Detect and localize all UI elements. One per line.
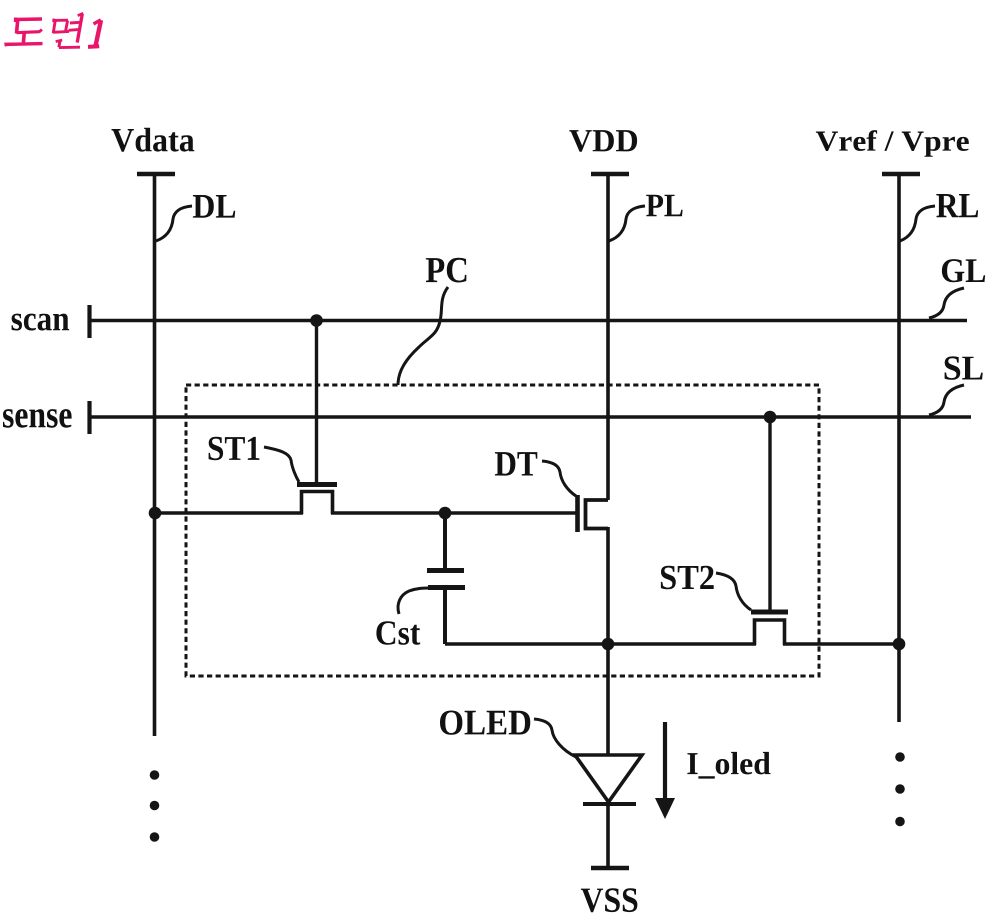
SL leader line — [929, 385, 964, 415]
capacitor Cst top lead — [443, 513, 447, 568]
I_oled current arrow — [663, 722, 667, 801]
transistor ST2 gate bar — [751, 610, 788, 615]
wire — [331, 511, 576, 515]
capacitor Cst bottom lead — [443, 590, 447, 644]
continuation dots left (DL column) — [150, 770, 160, 842]
source wire from Cst to RL (horizontal, y=644) — [445, 642, 756, 646]
continuation dots right (RL column) — [895, 752, 905, 826]
sense label — [3, 409, 72, 428]
sense line SL (horizontal) — [90, 415, 972, 419]
figure title 도면1 — [4, 13, 101, 47]
PL leader line — [609, 206, 645, 241]
DT leader line — [542, 461, 576, 496]
VDD terminal T-bar — [591, 172, 629, 177]
GL label — [942, 259, 985, 282]
pixel circuit dashed box PC — [186, 385, 819, 676]
DL label — [193, 195, 235, 218]
capacitor Cst top plate — [427, 568, 464, 573]
scan label — [12, 314, 70, 331]
Cst leader line — [398, 588, 430, 614]
Vref / Vpre label — [816, 130, 969, 157]
Vdata label — [112, 128, 195, 152]
wire OLED cathode to VSS — [606, 804, 610, 868]
ST1 label — [209, 437, 260, 460]
gate line GL (scan, horizontal) — [90, 319, 968, 323]
Vdata terminal T-bar — [137, 172, 175, 177]
PC label — [426, 258, 467, 283]
junction node on scan line (ST1 gate tap) — [310, 314, 323, 327]
I_oled label — [687, 752, 770, 779]
RL label — [936, 194, 978, 217]
VSS label — [581, 888, 638, 912]
ST1 leader line — [264, 447, 299, 482]
power line PL (vertical, upper part) — [606, 174, 610, 500]
transistor DT gate bar (vertical) — [575, 495, 580, 532]
VSS terminal bar — [591, 866, 629, 871]
ST2 label — [661, 566, 714, 590]
reference line RL (vertical) — [897, 174, 901, 722]
junction node at RL — [893, 638, 906, 651]
DT label — [495, 452, 537, 476]
PC leader line — [398, 287, 448, 385]
OLED label — [440, 711, 530, 735]
junction node on sense line (ST2 gate tap) — [764, 411, 777, 424]
DL leader line — [156, 206, 192, 241]
RL leader line — [900, 206, 935, 241]
VDD label — [569, 130, 637, 152]
Cst label — [376, 621, 420, 645]
junction node at capacitor tap — [439, 507, 452, 520]
transistor ST2 channel — [755, 620, 785, 645]
transistor DT channel — [586, 500, 609, 529]
sense line left tick — [87, 401, 91, 434]
SL label — [945, 356, 983, 379]
junction node at DT source — [602, 638, 615, 651]
capacitor Cst bottom plate — [428, 585, 465, 590]
scan line left tick — [87, 305, 91, 338]
OLED leader line — [534, 719, 576, 757]
ST2 gate wire (vertical) — [768, 417, 771, 610]
power line PL (vertical, lower part to OLED) — [606, 527, 610, 755]
transistor ST1 channel — [302, 492, 333, 515]
Vref terminal T-bar — [882, 172, 920, 177]
OLED cathode bar — [583, 802, 636, 806]
PL label — [646, 195, 682, 217]
wire — [783, 642, 899, 646]
transistor ST1 gate bar — [297, 482, 337, 487]
ST2 leader line — [716, 573, 751, 610]
OLED diode (triangle) — [575, 755, 642, 802]
data line DL (vertical) — [153, 174, 157, 736]
node wire from DL to DT gate (horizontal, y=513) — [155, 511, 304, 515]
GL leader line — [929, 288, 964, 318]
junction node on DL line — [149, 507, 162, 520]
ST1 gate wire (vertical) — [315, 321, 318, 483]
